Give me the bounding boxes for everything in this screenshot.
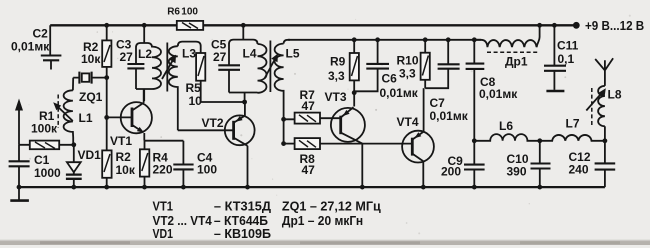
svg-text:R6: R6 [167, 7, 180, 18]
wire tank2 feed [242, 25, 244, 39]
wire tank1 bottom bar [136, 89, 152, 101]
trimmer arrow L4-L5 [265, 58, 276, 79]
svg-text:100: 100 [197, 163, 217, 177]
svg-text:R9: R9 [330, 55, 346, 69]
svg-text:VT3: VT3 [325, 90, 347, 104]
svg-text:Др1 – 20 мкГн: Др1 – 20 мкГн [282, 213, 363, 228]
capacitor C1 [18, 145, 20, 187]
node L7-C12-L8 [603, 138, 608, 143]
inductor L5 [275, 44, 284, 144]
svg-text:240: 240 [569, 163, 589, 177]
inductor L7 [540, 135, 605, 141]
svg-text:VT2: VT2 [202, 116, 224, 130]
svg-text:3,3: 3,3 [399, 67, 416, 81]
svg-text:+9 В...12 В: +9 В...12 В [585, 18, 644, 33]
svg-text:200: 200 [441, 165, 461, 179]
svg-text:L5: L5 [286, 47, 300, 61]
svg-text:0,01мк: 0,01мк [380, 86, 419, 100]
svg-text:27: 27 [120, 50, 134, 64]
transformer core L4-L5 [269, 41, 271, 93]
scan speckle noise [211, 39, 213, 41]
svg-text:L7: L7 [566, 117, 580, 131]
svg-text:100: 100 [181, 7, 198, 18]
capacitor C6 [375, 37, 380, 42]
capacitor C3 [127, 64, 144, 68]
resistor R7 [284, 118, 341, 119]
svg-text:10: 10 [189, 94, 203, 108]
svg-text:27: 27 [213, 50, 227, 64]
transformer core L2-L3 [166, 43, 168, 92]
resistor R4 [144, 141, 146, 187]
inductor L2 [152, 47, 161, 89]
resistor R6 [177, 21, 203, 30]
choke Dr1 [474, 25, 539, 47]
transistor VT4 [423, 88, 425, 131]
wire tank1 top bar [136, 43, 152, 64]
capacitor C9 [473, 141, 475, 187]
resistor R2 (lower bias) [102, 150, 111, 177]
svg-text:0,01мк: 0,01мк [479, 87, 518, 101]
svg-text:47: 47 [302, 163, 316, 177]
wire output feed sub-rail [288, 39, 481, 41]
svg-text:C1: C1 [34, 153, 50, 167]
capacitor C10 [539, 141, 541, 187]
wire ground rail [19, 186, 605, 188]
svg-text:VT1: VT1 [110, 134, 132, 148]
svg-text:10к: 10к [81, 52, 101, 66]
svg-text:C7: C7 [430, 96, 446, 110]
wire tank2 top bar [229, 40, 258, 65]
svg-text:C2: C2 [33, 27, 49, 41]
svg-text:L6: L6 [499, 119, 513, 133]
capacitor C4 [182, 141, 184, 187]
wire VT1 emitter node [144, 140, 183, 142]
inductor L1 [72, 138, 74, 145]
svg-text:VD1: VD1 [78, 148, 102, 162]
resistor R10 [423, 37, 428, 42]
scan artifact band bottom [0, 241, 650, 245]
node L5 to R7 [281, 117, 286, 122]
svg-text:R10: R10 [397, 54, 419, 68]
capacitor C8 [472, 37, 477, 42]
ground symbol [18, 187, 20, 200]
transistor VT2 [225, 115, 255, 145]
svg-text:L4: L4 [243, 47, 257, 61]
node input arrow [18, 108, 20, 145]
svg-text:– КВ109Б: – КВ109Б [214, 226, 271, 241]
node A junction R1-L1-VD1 [71, 142, 76, 147]
node tank2 feed [241, 23, 246, 28]
capacitor C5 [218, 65, 240, 70]
svg-text:L1: L1 [79, 111, 93, 125]
svg-text:0,01мк: 0,01мк [11, 40, 50, 54]
wire tank2 bottom bar [229, 93, 258, 103]
svg-text:C6: C6 [382, 72, 398, 86]
svg-text:L2: L2 [138, 47, 152, 61]
wire R8 to VT4 base [320, 143, 412, 145]
transistor VT1 [121, 102, 152, 133]
svg-text:Др1: Др1 [505, 55, 528, 69]
svg-text:0,01мк: 0,01мк [430, 109, 469, 123]
inductor L6 [474, 134, 540, 141]
svg-text:VT1: VT1 [153, 199, 174, 214]
wire L3 to VT2 base [178, 129, 234, 131]
svg-text:ZQ1: ZQ1 [79, 90, 103, 104]
svg-text:ZQ1 – 27,12 МГц: ZQ1 – 27,12 МГц [282, 199, 381, 214]
inductor L3 [169, 46, 178, 130]
antenna symbol [595, 58, 613, 86]
transistor VT3 [331, 108, 365, 142]
svg-text:47: 47 [302, 99, 316, 113]
svg-text:L3: L3 [182, 47, 196, 61]
capacitor C7 [446, 37, 451, 42]
varicap VD1 [73, 145, 75, 175]
svg-text:R2: R2 [116, 150, 132, 164]
svg-text:VD1: VD1 [153, 226, 174, 241]
antenna coil L8 [604, 126, 606, 141]
svg-text:VT4: VT4 [397, 115, 419, 129]
svg-text:3,3: 3,3 [328, 69, 345, 83]
resistor R2 (upper bias) [106, 25, 108, 77]
node tank1 feed [142, 23, 147, 28]
svg-text:390: 390 [507, 165, 527, 179]
svg-text:220: 220 [153, 163, 173, 177]
resistor R8 [284, 143, 295, 145]
svg-text:– КТ315Д: – КТ315Д [214, 199, 271, 214]
capacitor C2 [49, 25, 52, 69]
resistor R5 [201, 46, 245, 102]
trimmer arrow L2-L3 [162, 59, 174, 79]
svg-text:10к: 10к [116, 163, 136, 177]
svg-text:R5: R5 [186, 81, 202, 95]
svg-text:1000: 1000 [34, 166, 61, 180]
crystal ZQ1 [73, 77, 107, 79]
node L6-C10 [537, 138, 542, 143]
resistor R1 [19, 144, 74, 146]
wire top supply rail [50, 24, 574, 26]
node supply terminal +9V [573, 22, 580, 29]
resistor R9 [352, 37, 357, 42]
wire tank1 feed [143, 25, 145, 43]
svg-text:100к: 100к [31, 122, 58, 136]
inductor L4 [258, 44, 267, 93]
capacitor C11 [552, 23, 557, 28]
trimmer arrow L8 [586, 92, 602, 110]
svg-text:L8: L8 [608, 88, 622, 102]
wire base line VT1 [106, 78, 108, 151]
svg-text:0,1: 0,1 [558, 52, 575, 66]
trimmer arrow L1 [57, 106, 73, 122]
node filter input [472, 138, 477, 143]
capacitor C12 [604, 141, 606, 187]
svg-text:C11: C11 [557, 39, 579, 53]
